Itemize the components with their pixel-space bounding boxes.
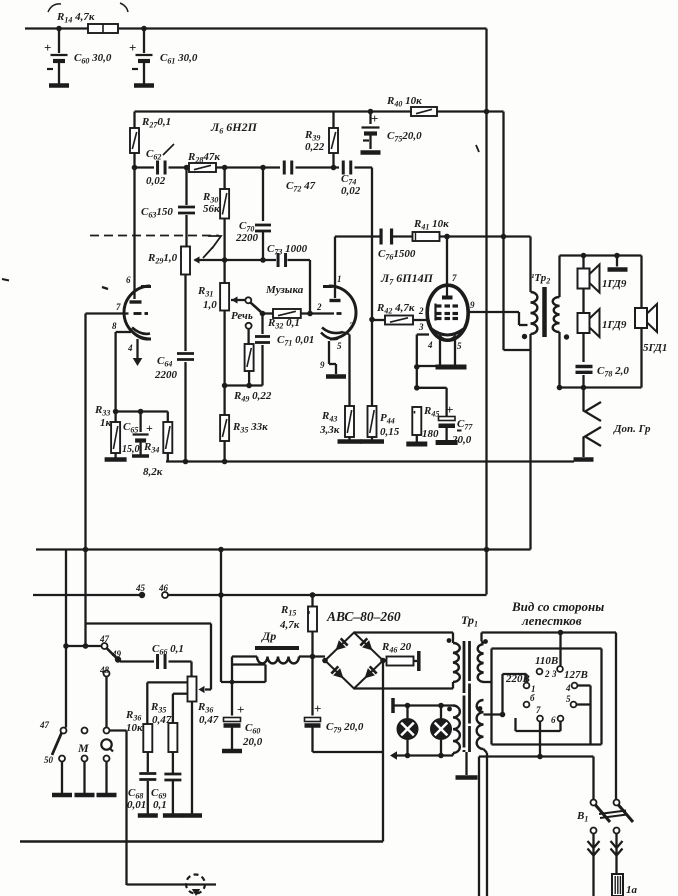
svg-text:+: + bbox=[129, 40, 136, 55]
svg-text:С72 47: С72 47 bbox=[286, 180, 316, 194]
svg-text:2200: 2200 bbox=[235, 232, 259, 244]
svg-text:С7520,0: С7520,0 bbox=[387, 130, 422, 144]
svg-text:45: 45 bbox=[135, 583, 146, 593]
svg-text:R32 0,1: R32 0,1 bbox=[267, 317, 300, 331]
svg-text:5: 5 bbox=[337, 341, 342, 351]
svg-text:+: + bbox=[237, 702, 244, 717]
svg-text:4: 4 bbox=[127, 343, 133, 353]
svg-text:6: 6 bbox=[551, 715, 556, 725]
svg-text:56к: 56к bbox=[203, 203, 220, 215]
svg-text:Доп. Гр: Доп. Гр bbox=[613, 423, 651, 435]
svg-text:Др: Др bbox=[261, 629, 276, 643]
svg-text:3: 3 bbox=[551, 669, 557, 679]
svg-text:20,0: 20,0 bbox=[451, 434, 472, 446]
svg-text:8: 8 bbox=[112, 321, 117, 331]
svg-text:+: + bbox=[44, 40, 51, 55]
svg-text:б: б bbox=[530, 693, 535, 703]
svg-text:9: 9 bbox=[320, 360, 325, 370]
svg-text:С66 0,1: С66 0,1 bbox=[152, 643, 184, 657]
svg-text:R42 4,7к: R42 4,7к bbox=[376, 302, 415, 316]
svg-text:47: 47 bbox=[99, 634, 110, 644]
svg-text:110В: 110В bbox=[535, 655, 558, 667]
svg-text:1: 1 bbox=[337, 274, 342, 284]
svg-text:R41 10к: R41 10к bbox=[413, 218, 449, 232]
svg-text:R14 4,7к: R14 4,7к bbox=[56, 11, 95, 25]
svg-text:1ГД9: 1ГД9 bbox=[602, 319, 627, 331]
svg-text:С61 30,0: С61 30,0 bbox=[160, 52, 198, 66]
svg-text:R49 0,22: R49 0,22 bbox=[233, 390, 272, 404]
svg-text:49: 49 bbox=[111, 649, 122, 659]
svg-text:0,02: 0,02 bbox=[341, 185, 361, 197]
svg-text:2: 2 bbox=[316, 302, 322, 312]
svg-text:Музыка: Музыка bbox=[265, 284, 304, 296]
svg-text:0,47: 0,47 bbox=[199, 714, 219, 726]
svg-text:0,15: 0,15 bbox=[380, 426, 400, 438]
svg-text:2: 2 bbox=[544, 669, 550, 679]
svg-text:0,1: 0,1 bbox=[153, 799, 167, 811]
svg-text:+: + bbox=[446, 402, 453, 417]
svg-text:20,0: 20,0 bbox=[242, 736, 263, 748]
svg-text:0,02: 0,02 bbox=[146, 175, 166, 187]
svg-text:8,2к: 8,2к bbox=[143, 466, 163, 478]
svg-text:46: 46 bbox=[158, 583, 169, 593]
svg-text:0,47: 0,47 bbox=[152, 714, 172, 726]
svg-text:Вид со стороны: Вид со стороны bbox=[511, 599, 604, 614]
svg-text:лепестков: лепестков bbox=[521, 613, 582, 628]
svg-text:5: 5 bbox=[566, 694, 571, 704]
svg-text:Л6 6Н2П: Л6 6Н2П bbox=[210, 120, 258, 136]
svg-text:R40 10к: R40 10к bbox=[386, 95, 422, 109]
svg-text:50: 50 bbox=[44, 755, 54, 765]
svg-text:С78 2,0: С78 2,0 bbox=[597, 365, 629, 379]
svg-text:1к: 1к bbox=[100, 417, 112, 429]
svg-text:10к: 10к bbox=[126, 722, 143, 734]
svg-text:4,7к: 4,7к bbox=[279, 619, 300, 631]
svg-text:С60 30,0: С60 30,0 bbox=[74, 52, 112, 66]
svg-text:М: М bbox=[77, 741, 89, 755]
svg-text:С71 0,01: С71 0,01 bbox=[277, 334, 314, 348]
svg-text:2200: 2200 bbox=[154, 369, 178, 381]
svg-text:47: 47 bbox=[39, 720, 50, 730]
svg-text:3: 3 bbox=[418, 322, 424, 332]
svg-text:5: 5 bbox=[457, 341, 462, 351]
svg-text:15,0: 15,0 bbox=[122, 444, 140, 455]
svg-text:Речь: Речь bbox=[231, 310, 253, 322]
svg-text:С73 1000: С73 1000 bbox=[267, 243, 308, 257]
svg-text:1а: 1а bbox=[626, 884, 638, 896]
svg-text:R35 33к: R35 33к bbox=[232, 421, 268, 435]
svg-text:0,01: 0,01 bbox=[127, 799, 146, 811]
svg-text:3,3к: 3,3к bbox=[319, 424, 340, 436]
svg-text:127В: 127В bbox=[564, 669, 588, 681]
svg-text:48: 48 bbox=[99, 665, 110, 675]
svg-text:2: 2 bbox=[418, 306, 424, 316]
svg-text:4: 4 bbox=[427, 340, 433, 350]
svg-text:+: + bbox=[314, 701, 321, 716]
svg-text:4: 4 bbox=[565, 683, 571, 693]
svg-text:7: 7 bbox=[116, 302, 121, 312]
svg-text:С79 20,0: С79 20,0 bbox=[326, 721, 364, 735]
svg-text:Л7 6П14П: Л7 6П14П bbox=[380, 271, 434, 287]
svg-text:7: 7 bbox=[452, 273, 457, 283]
svg-text:180: 180 bbox=[422, 428, 439, 440]
svg-text:1ГД9: 1ГД9 bbox=[602, 278, 627, 290]
svg-text:R2847к: R2847к bbox=[187, 151, 220, 165]
svg-text:С761500: С761500 bbox=[378, 248, 416, 262]
svg-text:0,22: 0,22 bbox=[305, 141, 325, 153]
svg-text:1,0: 1,0 bbox=[203, 299, 217, 311]
svg-text:7: 7 bbox=[536, 705, 541, 715]
svg-text:С63150: С63150 bbox=[141, 206, 173, 220]
svg-text:6: 6 bbox=[126, 275, 131, 285]
svg-text:220В: 220В bbox=[505, 673, 530, 685]
svg-text:3: 3 bbox=[348, 321, 354, 331]
svg-text:+: + bbox=[146, 421, 153, 435]
svg-text:5ГД1: 5ГД1 bbox=[643, 342, 667, 354]
svg-text:9: 9 bbox=[470, 300, 475, 310]
svg-text:АВС–80–260: АВС–80–260 bbox=[326, 609, 401, 624]
